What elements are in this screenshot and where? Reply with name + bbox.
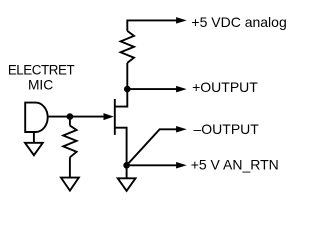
microphone MK1 [25, 103, 48, 143]
wire to -OUTPUT [127, 129, 177, 165]
wire source to ground [126, 165, 128, 178]
node source junction [123, 162, 130, 169]
arrowhead -OUTPUT [176, 126, 187, 133]
arrowhead +5 V AN_RTN [176, 162, 187, 169]
ground (R2) [61, 178, 79, 191]
svg-text:+5 V AN_RTN: +5 V AN_RTN [191, 156, 279, 172]
node gate junction [67, 113, 74, 120]
svg-text:MIC: MIC [28, 77, 53, 92]
node drain junction [124, 86, 131, 93]
gate arrowhead Q1 [104, 113, 114, 120]
ground (microphone) [25, 143, 43, 155]
svg-text:+5 VDC analog: +5 VDC analog [191, 14, 286, 30]
svg-text:ELECTRET: ELECTRET [8, 63, 75, 78]
wire to +5 V AN_RTN [127, 164, 177, 166]
transistor Q1 [48, 89, 127, 165]
arrowhead +5 VDC analog [176, 17, 187, 24]
wire to +OUTPUT [127, 88, 177, 90]
resistor R1 [121, 31, 134, 89]
ground (Q1 source) [118, 178, 136, 191]
resistor R2 [63, 117, 76, 178]
svg-text:–OUTPUT: –OUTPUT [194, 121, 260, 137]
arrowhead +OUTPUT [176, 86, 187, 93]
wire to +5 VDC analog [127, 20, 177, 31]
svg-text:+OUTPUT: +OUTPUT [192, 79, 258, 95]
